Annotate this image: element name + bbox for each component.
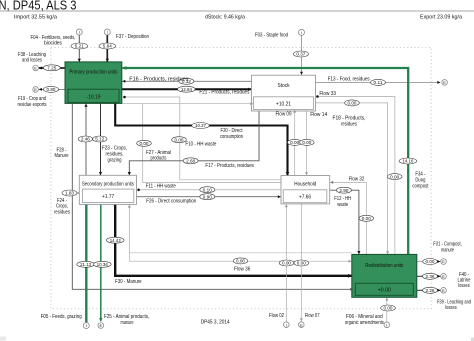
stock box stock dstock [254,97,314,110]
wire F11 HH waste [139,189,281,191]
wire F19 export [39,88,65,90]
wire Flow35 horizontal [129,252,351,254]
svg-text:Export 23.09 kg/a: Export 23.09 kg/a [420,14,462,20]
value F31 0.00 [423,259,438,265]
svg-text:0.10: 0.10 [203,187,212,192]
wire Flow36 secondary to redistribution [129,260,351,262]
wire F25 animal products secondary to export green [100,204,102,321]
svg-text:Flow 32: Flow 32 [349,176,365,182]
wire F26 direct consumption secondary to household [137,196,281,198]
value F34 14.16 [399,158,417,164]
svg-text:I: I [286,322,287,327]
wire F31 redistribution export [417,261,441,263]
node E Flow07 [299,322,305,328]
stock box redistribution dstock [355,283,413,295]
process box primary production units [65,62,122,104]
arrow F31 [437,260,440,263]
svg-text:E: E [34,66,37,71]
arrow F20 [286,172,290,175]
node I F04 [76,29,82,35]
svg-text:residues: residues [341,121,357,127]
arrow Flow09 [293,110,296,113]
wire F16 stock to primary [122,80,251,82]
wire F18 stock to redistribution [316,103,388,254]
svg-text:Flow 14: Flow 14 [310,112,327,118]
svg-text:Flow 07: Flow 07 [305,313,320,319]
svg-text:2.26: 2.26 [426,288,435,293]
wire Flow33 stock to redistribution [318,97,395,255]
svg-text:21.13: 21.13 [80,262,91,267]
svg-text:F10 - HH waste: F10 - HH waste [185,142,216,148]
value F21 12.94 [178,86,196,92]
arrow F38 [39,66,42,69]
value F23 5.12 [93,136,107,142]
arrow Flow35 [128,205,131,208]
value F39 2.26 [423,287,438,293]
value F03 0.37 [293,51,308,57]
node Flow33 start dot [316,95,319,98]
svg-text:5.21: 5.21 [75,44,84,49]
stock box primary dstock [68,89,119,102]
arrow F13 [437,81,440,84]
svg-text:E: E [443,80,446,85]
svg-text:DP45 3, 2014: DP45 3, 2014 [201,319,230,325]
arrow F40 [437,275,440,278]
arrow Flow36 [349,260,352,263]
svg-text:Flow 09: Flow 09 [276,112,292,118]
arrow F30 [348,274,352,278]
svg-text:F03 - Staple food: F03 - Staple food [255,33,288,39]
svg-text:14.16: 14.16 [402,159,413,164]
value F18 0.00 [345,100,360,106]
svg-text:residue exports: residue exports [18,102,47,108]
svg-text:I: I [386,323,387,328]
arrow F16 [122,80,125,83]
node E F40 [441,274,447,280]
wire F38 export [39,67,65,69]
svg-text:+7.66: +7.66 [299,195,311,201]
arrow F23 [99,172,102,175]
svg-text:E: E [99,323,102,328]
svg-text:F21 - Products, residues: F21 - Products, residues [199,90,249,96]
svg-text:Household: Household [294,181,316,187]
svg-text:Secondary production units: Secondary production units [82,182,134,188]
value F06 0.00 [381,305,396,311]
svg-text:14.43: 14.43 [110,238,121,243]
svg-text:I: I [107,30,108,35]
svg-text:0.00: 0.00 [290,140,299,145]
node I F37 [104,29,110,35]
value F12 2.90 [336,187,351,193]
svg-text:manure: manure [121,320,134,326]
node I F03 [299,29,305,35]
node E F13 [442,80,448,86]
wire F10 primary to household [125,97,282,180]
svg-text:F13 - Food, residues: F13 - Food, residues [328,76,370,82]
wire F34 dung compost redistribution to primary green [123,68,409,254]
svg-text:Flow 33: Flow 33 [319,91,336,97]
wire Flow35 vertical into secondary [128,205,130,262]
svg-text:F30 - Manure: F30 - Manure [115,279,142,285]
value F37 5.84 [99,43,116,49]
arrow F04 [78,59,81,62]
value F05 21.13 [77,261,95,267]
arrow Flow14 [305,172,308,175]
svg-text:F16 - Products, residues: F16 - Products, residues [129,76,189,82]
svg-text:F37 - Deposition: F37 - Deposition [116,34,149,40]
arrow F12 [357,251,360,254]
wire F13 stock to export [316,81,441,83]
corner artifact bottom right [471,338,474,341]
svg-text:F26 - Direct consumption: F26 - Direct consumption [146,198,196,204]
wire F04 import [78,35,80,62]
svg-text:Manure: Manure [55,153,69,159]
value F04 5.21 [71,43,88,49]
wire F23 crops primary to secondary [100,103,102,175]
value F13 0.11 [371,79,386,85]
svg-text:2.36: 2.36 [426,274,435,279]
svg-text:+10.21: +10.21 [276,101,291,107]
svg-text:biocides: biocides [44,41,62,47]
value F26 0.90 [200,194,215,200]
arrow F28 [84,104,87,107]
svg-text:E: E [442,274,445,279]
svg-text:Stock: Stock [278,83,290,89]
value F28 2.46 [78,136,92,142]
svg-text:+0.00: +0.00 [378,288,391,294]
svg-text:products: products [151,156,167,162]
svg-text:0.00: 0.00 [236,259,245,264]
svg-text:2.68: 2.68 [186,159,195,164]
svg-text:E: E [442,288,445,293]
value Flow32 0.00 [359,215,374,221]
svg-text:residues: residues [54,209,70,215]
arrow Flow02 [285,204,288,207]
svg-text:grazing: grazing [108,157,122,163]
process box household [281,176,330,204]
svg-text:1.83: 1.83 [65,191,74,196]
wire Flow32 redistribution to household [330,182,366,254]
svg-text:Redistribution units: Redistribution units [365,263,403,269]
arrow F19 [39,88,42,91]
svg-text:5.84: 5.84 [103,44,112,49]
svg-text:E: E [442,259,445,264]
arrow F06 [385,298,388,301]
arrow F18 [386,251,389,254]
svg-text:Primary production units: Primary production units [69,70,117,76]
arrow Flow07 [300,318,303,321]
wire F21 primary to stock [122,88,252,90]
svg-text:-10.19: -10.19 [87,94,101,100]
value Flow09 0.00 [287,139,302,145]
svg-text:and losses: and losses [22,58,42,64]
process box secondary production units [79,175,136,204]
svg-text:0.80: 0.80 [47,87,56,92]
node E F39 [441,288,447,294]
corner artifact bottom left [0,337,6,341]
svg-text:10.36: 10.36 [97,262,108,267]
node E F31 [441,259,447,265]
svg-text:0.00: 0.00 [384,306,393,311]
arrow F37 [106,59,109,62]
svg-text:Import 32.55 kg/a: Import 32.55 kg/a [14,14,57,20]
value F11 0.10 [200,187,215,193]
wire F37 import [106,35,108,62]
svg-text:waste: waste [337,202,348,208]
wire Flow07 household to export [300,204,302,322]
svg-text:organic amendments: organic amendments [345,320,384,326]
svg-text:I: I [79,30,80,35]
wire F24 stub at secondary [77,192,83,194]
header rule [0,10,474,12]
wire F20 direct consumption primary to household [115,103,287,175]
wire F27 animal products primary to household [143,104,281,183]
svg-text:12.94: 12.94 [181,87,192,92]
wire Flow09 household to stock [294,110,296,176]
value Flow33 0.00 [387,174,402,180]
arrow F39 [437,289,440,292]
value F24 1.83 [62,190,77,196]
value F30 14.43 [106,237,124,243]
svg-text:0.90: 0.90 [203,194,212,199]
svg-text:0.00: 0.00 [302,140,311,145]
svg-text:0.00: 0.00 [297,261,306,266]
wire Flow02 import to household [285,204,287,322]
svg-text:losses: losses [458,283,470,289]
process box stock [252,75,316,111]
value Flow36 0.00 [233,258,248,264]
process box redistribution units [352,254,417,297]
svg-text:F11 - HH waste: F11 - HH waste [146,184,176,190]
svg-text:Flow 02: Flow 02 [269,313,284,319]
svg-text:0.00: 0.00 [282,261,291,266]
value Flow14 0.00 [300,139,315,145]
node E F25 [98,323,104,329]
svg-text:0.37: 0.37 [296,52,305,57]
node E F38 [33,65,39,71]
arrow Flow08 [250,102,253,105]
value F16 0.32 [179,78,194,84]
wire F24 secondary to redistribution [72,103,353,289]
wire F40 latrine losses export [417,275,441,277]
node I F05 [83,323,89,329]
svg-text:Flow 36: Flow 36 [234,267,250,273]
wire F30 manure secondary to redistribution [115,204,351,275]
svg-text:0.00: 0.00 [348,101,357,106]
svg-text:0.00: 0.00 [175,137,184,142]
svg-text:I: I [301,30,302,35]
arrow F17 [128,172,131,175]
svg-text:0.00: 0.00 [390,174,399,179]
value F25 10.36 [94,261,112,267]
svg-text:F17 - Products, residues: F17 - Products, residues [205,163,254,169]
svg-text:consumption: consumption [220,134,243,140]
value F19 0.80 [44,86,59,92]
wire Flow08 primary to stock dstock [122,103,254,105]
wire F12 HH waste household to redistribution [330,190,359,254]
arrow F26 [278,195,281,198]
value F27 0.00 [137,140,152,146]
svg-text:0.11: 0.11 [374,80,383,85]
node E F19 [33,87,39,93]
value F38 7.25 [43,65,60,71]
node I F06 [384,322,390,328]
svg-text:compost: compost [412,183,429,189]
svg-text:E: E [34,87,37,92]
svg-text:E: E [300,322,303,327]
svg-text:0.00: 0.00 [426,259,435,264]
svg-text:I: I [86,323,87,328]
arrow F34 green [122,66,126,70]
svg-text:10.27: 10.27 [195,123,206,128]
stock box household dstock [283,190,327,203]
value Flow07 0.00 [294,260,309,266]
wire F28 manure secondary to primary [85,104,87,176]
system boundary dashed [51,47,431,309]
svg-text:dStock: 9.46 kg/a: dStock: 9.46 kg/a [205,14,245,20]
svg-text:losses: losses [445,305,457,311]
value F17 2.68 [183,158,198,164]
wire F03 import [301,35,303,74]
arrow F25 green [99,318,103,321]
wire F39 leaching losses export [417,289,441,291]
value Flow02 0.00 [279,260,294,266]
value F10 0.00 [172,137,187,143]
svg-text:+1.77: +1.77 [102,194,114,200]
svg-text:0.00: 0.00 [140,141,149,146]
node F10 start dot [123,96,126,99]
svg-text:0.00: 0.00 [362,216,371,221]
arrow F03 [300,72,303,75]
arrow Flow32 [330,181,333,184]
wire Flow14 stock to household [306,111,308,175]
svg-text:2.90: 2.90 [339,188,348,193]
wire F06 import to redistribution [386,298,388,322]
node F11 start dot [137,189,140,192]
node I Flow02 [284,322,290,328]
value F40 2.36 [423,273,438,279]
wire F05 feeds import to secondary green [85,204,87,322]
svg-text:7.25: 7.25 [47,66,56,71]
svg-text:5.12: 5.12 [95,137,104,142]
svg-text:F05 - Feeds, grazing: F05 - Feeds, grazing [41,314,82,320]
svg-text:manure: manure [441,247,454,253]
wire F17 stock to secondary [129,111,259,175]
stock box secondary dstock [83,189,134,202]
value F20 10.27 [192,123,210,129]
svg-text:2.46: 2.46 [81,137,90,142]
arrow F24 [350,288,353,291]
arrow F21 [248,88,251,91]
